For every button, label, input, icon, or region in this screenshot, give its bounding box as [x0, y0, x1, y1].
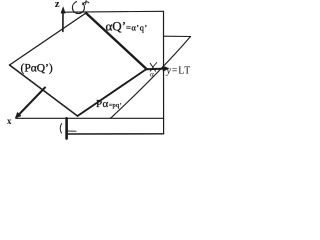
- x axis arrow: [18, 88, 46, 117]
- box bottom edge: [67, 133, 164, 135]
- LT plane hypotenuse long diagonal: [111, 37, 191, 119]
- svg-text:x: x: [7, 116, 12, 126]
- svg-text:(PαQ’): (PαQ’): [21, 63, 53, 75]
- plane edge L-T: [10, 13, 87, 65]
- svg-text:y=LT: y=LT: [166, 66, 192, 77]
- L mark: [67, 127, 76, 131]
- base line y=118: [16, 117, 164, 119]
- box top edge: [62, 10, 164, 13]
- box right edge: [163, 11, 165, 134]
- z axis: [62, 11, 64, 32]
- plane edge B-R (thick): [78, 69, 147, 116]
- y axis arrow: [147, 68, 165, 71]
- rotation symbol: [72, 2, 84, 14]
- thick vertical stub: [65, 118, 68, 138]
- plane edge T-R (thick): [86, 13, 147, 69]
- LT plane top edge: [164, 35, 191, 37]
- scribble x at vertex: [150, 63, 157, 72]
- bracket mark (: [60, 124, 62, 134]
- plane edge L-B: [10, 65, 78, 116]
- svg-text:z: z: [55, 0, 60, 10]
